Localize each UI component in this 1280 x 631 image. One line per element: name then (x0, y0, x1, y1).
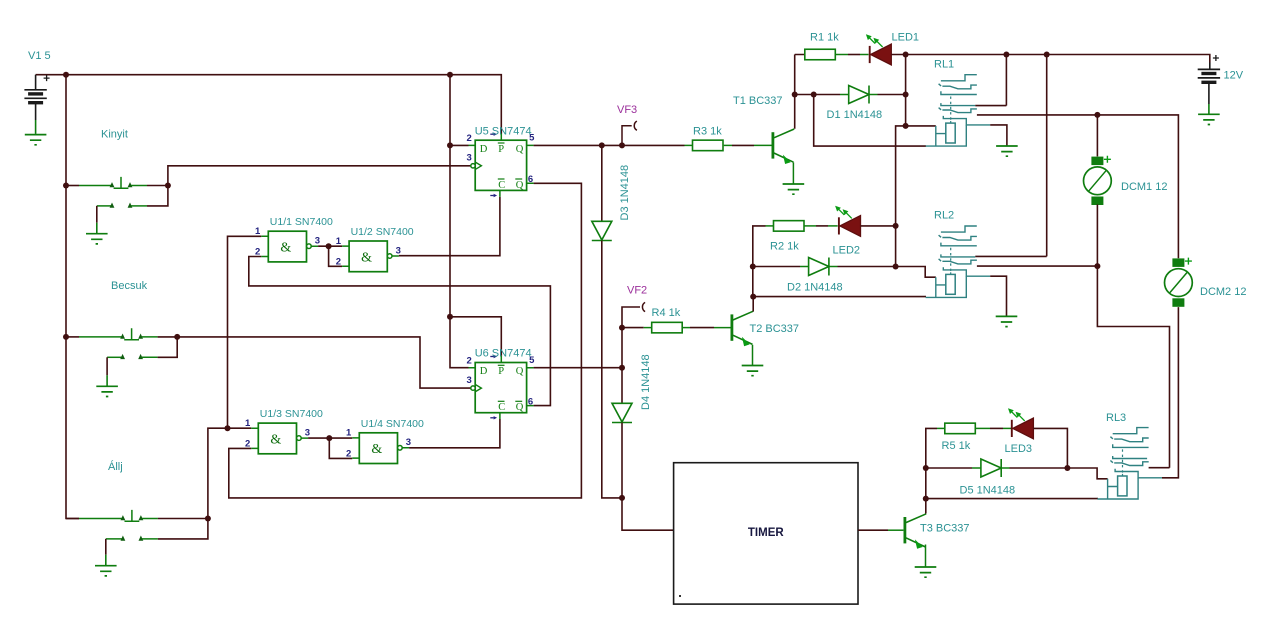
timer block (674, 463, 858, 604)
resistor R4 1k (652, 322, 683, 333)
junction dot (903, 92, 909, 98)
junction dot (1094, 112, 1100, 118)
wire U1/4 output to U6 clear (409, 419, 500, 448)
relay RL1 contact set 1 (941, 75, 977, 81)
svg-text:1: 1 (346, 428, 352, 439)
junction dot (165, 183, 171, 189)
svg-text:2: 2 (467, 355, 472, 366)
svg-text:3: 3 (315, 236, 320, 247)
wire RL3 coil feed (1067, 468, 1107, 479)
svg-text:2: 2 (467, 133, 472, 144)
wire U6 preset from bus (450, 317, 501, 356)
svg-text:LED1: LED1 (892, 31, 920, 43)
led LED1 (871, 44, 892, 65)
wire 12V to RL1 coil (905, 55, 907, 126)
junction dot (923, 496, 929, 502)
junction dot (63, 334, 69, 340)
wire RL2 coil to ground (990, 276, 1006, 316)
transistor T1 BC337 (772, 132, 775, 158)
nand gate U1/1 (268, 231, 306, 262)
junction dot (811, 92, 817, 98)
led LED2 (840, 216, 861, 237)
junction dot (619, 325, 625, 331)
junction dot (447, 72, 453, 78)
svg-text:D2 1N4148: D2 1N4148 (787, 282, 843, 294)
wire LED2 right (861, 225, 896, 227)
wire RL1 coil to ground (990, 125, 1007, 146)
resistor R2 1k (774, 221, 805, 232)
wire T1 junction row (795, 94, 814, 96)
relay RL2 coil (926, 276, 967, 297)
svg-text:RL3: RL3 (1106, 412, 1126, 424)
relay RL3 coil (1097, 478, 1138, 499)
svg-text:Q: Q (516, 366, 524, 377)
svg-text:R1 1k: R1 1k (810, 31, 839, 43)
junction dot (750, 264, 756, 270)
svg-text:U1/2 SN7400: U1/2 SN7400 (351, 226, 414, 238)
junction dot (1003, 52, 1009, 58)
svg-text:RL2: RL2 (934, 210, 954, 222)
svg-text:&: & (371, 442, 382, 457)
svg-text:U6 SN7474: U6 SN7474 (475, 348, 532, 360)
svg-text:6: 6 (528, 396, 533, 407)
svg-text:Q: Q (516, 402, 524, 413)
svg-text:D5 1N4148: D5 1N4148 (960, 485, 1016, 497)
wire U1/3 output node (308, 438, 352, 458)
wire U6 Q output row (534, 367, 622, 369)
wire R5 to LED3 (975, 427, 990, 429)
motor DCM1 12 (1091, 157, 1103, 166)
svg-text:3: 3 (467, 375, 472, 386)
diode D3 1N4148 (601, 145, 603, 221)
wire T2 emitter (752, 345, 754, 366)
wire LED3 right corner (1033, 428, 1067, 468)
svg-text:TIMER: TIMER (748, 527, 784, 539)
ground below 12V (1198, 114, 1220, 124)
wire RL1 coil feed left (896, 126, 936, 267)
battery 12V (1209, 63, 1211, 70)
svg-text:DCM2 12: DCM2 12 (1200, 286, 1246, 298)
svg-text:6: 6 (528, 174, 533, 185)
probe VF2 (642, 302, 645, 311)
svg-text:T1 BC337: T1 BC337 (733, 95, 783, 107)
svg-text:RL1: RL1 (934, 59, 954, 71)
svg-text:V1 5: V1 5 (28, 50, 51, 62)
svg-text:LED2: LED2 (833, 245, 861, 257)
wire R2 corner (753, 226, 766, 297)
battery V1 5V (36, 74, 66, 76)
wire RL1 contact2 to motors (977, 115, 1179, 258)
wire R4 to T2 base (682, 327, 690, 329)
svg-text:P: P (498, 144, 504, 155)
junction dot (447, 142, 453, 148)
wire U1/1 pin1 vertical (228, 236, 262, 428)
led LED3 (1013, 418, 1034, 439)
junction dot (1044, 52, 1050, 58)
junction dot (326, 243, 332, 249)
wire T2 collector (752, 297, 754, 312)
svg-text:C: C (498, 180, 505, 191)
wire U1/1 output node (318, 246, 342, 266)
wire T1 to relay frame row (814, 95, 926, 147)
resistor R5 1k (945, 423, 976, 434)
svg-text:Becsuk: Becsuk (111, 280, 148, 292)
svg-text:D: D (480, 366, 488, 377)
resistor R3 1k (693, 140, 724, 151)
svg-text:Q: Q (516, 180, 524, 191)
svg-text:VF3: VF3 (617, 104, 637, 116)
relay RL2 linkage (950, 248, 952, 272)
wire T1 emitter to ground (792, 162, 794, 184)
svg-text:3: 3 (305, 427, 310, 438)
svg-text:2: 2 (255, 247, 260, 258)
wire D-node to TIMER input (622, 498, 674, 530)
diode D5 1N4148 (926, 467, 972, 469)
svg-text:T3 BC337: T3 BC337 (920, 522, 970, 534)
junction dot (174, 334, 180, 340)
wire R5 corner down (926, 428, 937, 498)
wire RL1 contact1 to rail (975, 55, 1006, 106)
diode D4 1N4148 (621, 368, 623, 404)
motor DCM2 12 (1172, 258, 1184, 267)
ground below V1 (25, 135, 47, 145)
wire RL2 contact1 to rail (975, 55, 1046, 257)
svg-text:P: P (498, 366, 504, 377)
pushbutton switch Becsuk (66, 336, 79, 338)
relay RL1 linkage (950, 97, 952, 122)
wire T2 collector row (753, 296, 926, 298)
wire Becsuk to U6 clock (177, 337, 470, 388)
pushbutton switch Kinyit (66, 185, 79, 187)
junction dot (63, 72, 69, 78)
ground RL1 (996, 146, 1018, 156)
wire T3 collector (925, 499, 927, 514)
junction dot (1064, 465, 1070, 471)
svg-text:12V: 12V (1224, 70, 1244, 82)
svg-text:2: 2 (245, 439, 250, 450)
nand gate U1/4 (359, 433, 397, 464)
svg-text:D: D (480, 144, 488, 155)
junction dot (205, 516, 211, 522)
flip-flop U6 SN7474 (475, 363, 526, 413)
wire U5 Q output row (534, 144, 685, 146)
wire U6 Q-bar feedback to U1/1 pin2 (249, 257, 551, 406)
svg-text:VF2: VF2 (627, 285, 647, 297)
junction dot (1094, 263, 1100, 269)
node 5V rail from V1 to U5 preset (66, 75, 501, 134)
svg-text:&: & (270, 433, 281, 448)
svg-text:3: 3 (406, 437, 411, 448)
svg-text:LED3: LED3 (1005, 443, 1033, 455)
relay RL3 contact set 1 (1113, 428, 1149, 434)
wire T1 collector (795, 55, 805, 129)
wire RL2 coil feed (896, 267, 936, 278)
svg-text:D3 1N4148: D3 1N4148 (619, 165, 631, 221)
svg-text:D1 1N4148: D1 1N4148 (827, 109, 883, 121)
wire U5 Q-bar to U1/3 pin2 (229, 183, 582, 498)
junction dot (225, 425, 231, 431)
wire DCM1 top (1096, 115, 1098, 156)
relay RL1 coil (926, 125, 967, 146)
junction dot (326, 435, 332, 441)
ground T2 (742, 366, 764, 376)
pushbutton switch Allj (66, 518, 79, 520)
wire Kinyit to U5 clock (168, 166, 471, 186)
relay RL1 contact set 2 (941, 103, 975, 106)
nand gate U1/2 (349, 241, 387, 272)
wire T3 emitter (925, 545, 927, 567)
junction dot (792, 92, 798, 98)
wire RL2 contact2 to DCM1 (977, 265, 1098, 267)
junction dot (750, 294, 756, 300)
wire left supply bus (66, 75, 79, 519)
svg-text:Q: Q (516, 144, 524, 155)
svg-text:R3 1k: R3 1k (693, 125, 722, 137)
junction dot (619, 495, 625, 501)
junction dot (599, 142, 605, 148)
svg-text:1: 1 (255, 226, 261, 237)
wire DCM1 bottom to RL3 (1097, 204, 1169, 467)
wire R1 to LED1 (835, 54, 848, 56)
junction dot (893, 264, 899, 270)
svg-text:Kinyit: Kinyit (101, 129, 128, 141)
svg-text:3: 3 (467, 153, 472, 164)
diode D2 1N4148 (753, 266, 800, 268)
svg-text:1: 1 (245, 418, 251, 429)
svg-text:R5 1k: R5 1k (942, 440, 971, 452)
svg-text:R2 1k: R2 1k (770, 240, 799, 252)
wire U1/2 output to U5 clear (399, 197, 500, 256)
relay RL3 contact set 2 (1113, 456, 1147, 459)
svg-text:&: & (361, 250, 372, 265)
svg-text:U1/1 SN7400: U1/1 SN7400 (270, 216, 333, 228)
diode D1 1N4148 (814, 94, 840, 96)
svg-text:C: C (498, 402, 505, 413)
resistor R1 1k (805, 49, 836, 60)
wire R3 to T1 base (724, 144, 732, 146)
ground T3 (915, 567, 937, 577)
svg-text:2: 2 (346, 448, 351, 459)
ground RL2 (996, 316, 1018, 326)
svg-text:3: 3 (396, 245, 401, 256)
wire Allj junction to U1/3 pin1 (208, 428, 251, 518)
junction dot (619, 142, 625, 148)
svg-text:U5 SN7474: U5 SN7474 (475, 125, 532, 137)
flip-flop U5 SN7474 (475, 140, 526, 190)
wire TIMER output to T3 base (858, 529, 888, 531)
node VF2 R4 junction (622, 307, 644, 368)
svg-text:Állj: Állj (108, 460, 123, 473)
wire T3 row to RL3 frame (926, 498, 1098, 500)
relay RL2 contact set 1 (941, 226, 977, 232)
svg-text:1: 1 (336, 236, 342, 247)
relay RL3 linkage (1122, 449, 1124, 474)
nand gate U1/3 (258, 423, 296, 454)
transistor T3 BC337 (904, 517, 907, 543)
probe VF3 (622, 121, 637, 145)
svg-text:DCM1 12: DCM1 12 (1121, 181, 1167, 193)
transistor T2 BC337 (731, 314, 734, 340)
svg-text:&: & (280, 241, 291, 256)
svg-text:T2 BC337: T2 BC337 (750, 323, 800, 335)
svg-text:2: 2 (336, 257, 341, 268)
svg-text:R4 1k: R4 1k (652, 307, 681, 319)
relay RL2 contact set 2 (941, 254, 975, 257)
junction dot (903, 123, 909, 129)
wire bus to U5 and U6 D inputs (450, 75, 469, 368)
wire DCM2 bottom to RL3 coil (1162, 307, 1178, 478)
svg-text:U1/3 SN7400: U1/3 SN7400 (260, 408, 323, 420)
junction dot (447, 314, 453, 320)
svg-text:U1/4 SN7400: U1/4 SN7400 (361, 418, 424, 430)
wire R2 to LED2 (804, 225, 816, 227)
wire LED1 to 12V rail (891, 55, 1210, 63)
svg-text:D4 1N4148: D4 1N4148 (640, 354, 652, 410)
ground T1 (783, 184, 805, 194)
junction dot (893, 223, 899, 229)
junction dot (63, 183, 69, 189)
junction dot (923, 465, 929, 471)
junction dot (619, 365, 625, 371)
junction dot (903, 52, 909, 58)
